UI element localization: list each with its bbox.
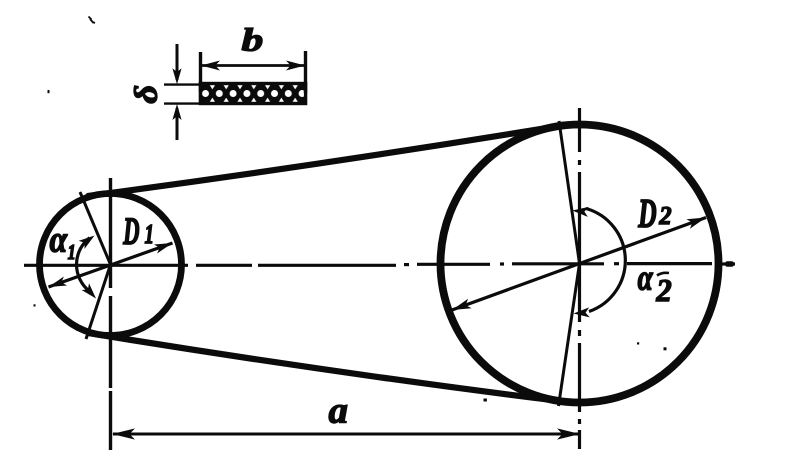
D1 diameter line with arrows <box>49 243 173 287</box>
centerline end blob right <box>725 261 734 267</box>
big pulley D2 circle <box>441 125 719 403</box>
D2 diameter line with arrows <box>452 218 706 311</box>
label alpha2 <box>638 273 653 290</box>
b extension lines <box>201 51 306 93</box>
alpha2 wrap-angle arc with arrows <box>586 209 625 312</box>
b dimension line and arrows <box>201 61 305 71</box>
label D2 <box>638 200 656 227</box>
delta extension lines <box>164 85 200 104</box>
small pulley D1 circle <box>40 194 182 336</box>
stray dot 4 <box>664 347 667 350</box>
alpha1 wrap-angle arc with arrows <box>77 238 90 291</box>
delta dimension line and arrows <box>172 44 181 140</box>
a dimension line with arrows <box>112 428 580 439</box>
vertical centerline small pulley <box>109 178 112 450</box>
stray dot 1 <box>48 90 50 93</box>
stray dot 3 <box>637 342 639 344</box>
label D1 <box>123 218 139 244</box>
wrap-angle radius lines big pulley <box>559 121 580 406</box>
belt cross-section hatched rectangle <box>199 82 307 105</box>
stray dot 5 <box>484 399 487 402</box>
stray dot 2 <box>34 304 36 306</box>
stray mark squiggle top-left <box>89 17 96 24</box>
label delta (rotated) <box>134 86 157 103</box>
label alpha1 <box>50 234 68 252</box>
horizontal centerline <box>24 264 735 266</box>
vertical centerline big pulley / extension line <box>578 108 581 449</box>
belt bottom run <box>89 333 557 401</box>
label b <box>242 28 262 51</box>
wrap-angle radius lines small pulley <box>80 192 111 339</box>
belt top run <box>88 126 557 196</box>
label a <box>329 405 347 423</box>
